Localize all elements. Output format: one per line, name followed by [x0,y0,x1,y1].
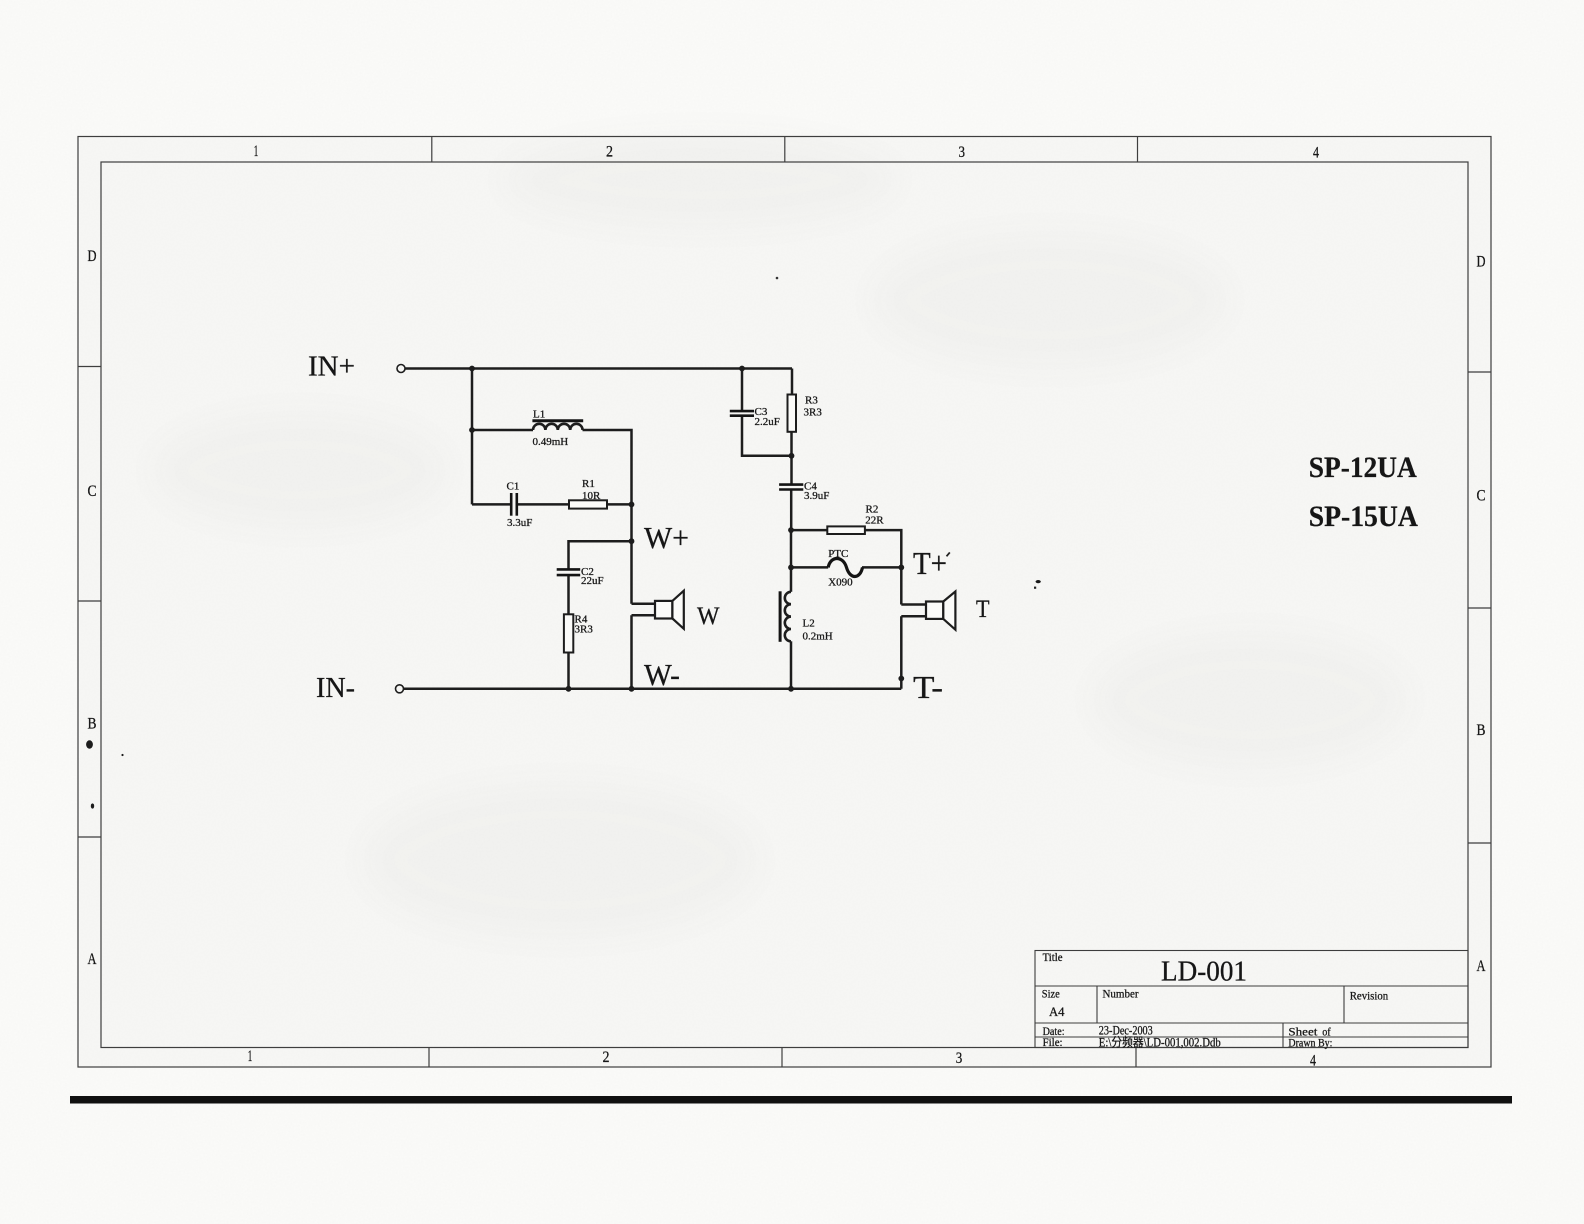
svg-text:R3: R3 [805,395,818,407]
svg-text:T+: T+ [913,545,947,581]
svg-text:10R: 10R [582,490,601,502]
svg-text:W-: W- [644,657,680,692]
svg-text:SP-15UA: SP-15UA [1309,500,1418,533]
svg-text:C: C [88,483,97,500]
svg-text:D: D [88,248,97,265]
svg-text:Drawn By:: Drawn By: [1288,1036,1332,1050]
svg-text:3: 3 [956,1050,963,1067]
svg-text:C1: C1 [507,481,520,493]
svg-text:2: 2 [606,144,613,161]
svg-text:E:\分频器\LD-001,002.Ddb: E:\分频器\LD-001,002.Ddb [1099,1036,1221,1050]
svg-text:B: B [1477,722,1486,739]
svg-text:A: A [88,951,98,968]
svg-text:Size: Size [1042,987,1060,1001]
svg-text:File:: File: [1043,1035,1063,1049]
svg-text:Number: Number [1103,987,1139,1001]
svg-text:R1: R1 [582,478,595,490]
svg-text:A: A [1477,958,1487,975]
svg-text:3R3: 3R3 [575,624,594,636]
svg-text:4: 4 [1310,1053,1316,1070]
svg-text:W+: W+ [644,520,689,555]
svg-text:X090: X090 [828,577,853,589]
svg-text:D: D [1477,254,1486,271]
svg-text:22R: 22R [865,515,884,527]
svg-text:W: W [697,603,720,630]
svg-text:0.49mH: 0.49mH [533,436,569,448]
svg-text:3.3uF: 3.3uF [507,517,532,529]
svg-text:22uF: 22uF [581,575,604,587]
svg-text:0.2mH: 0.2mH [803,631,833,643]
svg-text:4: 4 [1313,145,1319,162]
svg-text:2: 2 [603,1049,610,1066]
svg-text:1: 1 [248,1048,253,1065]
svg-text:T-: T- [913,669,943,705]
svg-text:IN-: IN- [316,673,355,704]
svg-text:3R3: 3R3 [804,407,823,419]
svg-text:LD-001: LD-001 [1161,957,1247,988]
svg-text:B: B [88,716,97,733]
svg-text:C: C [1477,488,1486,505]
svg-text:SP-12UA: SP-12UA [1309,451,1417,484]
svg-text:Title: Title [1043,950,1063,964]
svg-text:A4: A4 [1049,1004,1065,1019]
svg-text:L1: L1 [533,409,545,421]
svg-text:1: 1 [254,143,259,160]
svg-text:PTC: PTC [828,548,848,560]
svg-text:3: 3 [959,144,966,161]
svg-text:Revision: Revision [1350,989,1389,1003]
svg-text:3.9uF: 3.9uF [804,490,829,502]
svg-text:2.2uF: 2.2uF [755,416,780,428]
svg-text:IN+: IN+ [308,352,355,383]
svg-text:T: T [976,596,990,623]
svg-text:L2: L2 [803,618,815,630]
